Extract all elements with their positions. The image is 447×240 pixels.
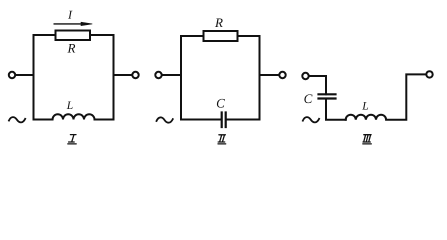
svg-text:L: L [66, 100, 73, 112]
svg-text:L: L [361, 100, 368, 112]
svg-text:R: R [67, 40, 76, 55]
svg-text:R: R [214, 15, 223, 30]
svg-text:C: C [304, 91, 313, 106]
svg-text:C: C [216, 95, 225, 110]
